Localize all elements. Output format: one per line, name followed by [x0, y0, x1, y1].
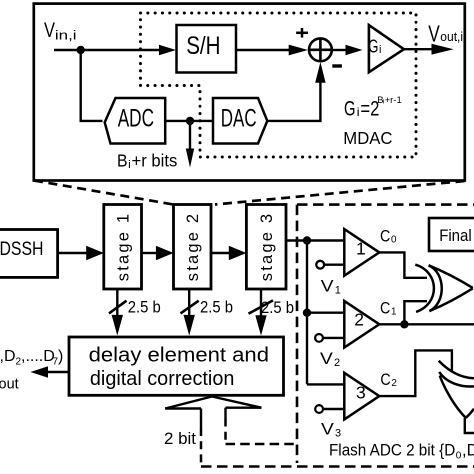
stage 3 block [246, 205, 286, 290]
svg-text:digital correction: digital correction [90, 368, 235, 390]
comparator 2 [344, 301, 379, 348]
wire stage 2 digital output down [188, 289, 190, 317]
ADC block [105, 98, 166, 144]
delay element and digital correction block [69, 337, 284, 395]
wire V1 to comparator 1 [324, 264, 344, 266]
svg-text:in,i: in,i [55, 29, 77, 43]
node junction dot on Vin wire [77, 46, 85, 54]
svg-text:Final: Final [439, 227, 472, 245]
wire amplifier output to Vout [404, 48, 433, 50]
wire V2 to comparator 2 [323, 337, 344, 339]
op-amp Gi amplifier triangle [369, 25, 404, 72]
wire stage 1 to stage 2 [142, 252, 158, 254]
svg-text:1: 1 [356, 239, 366, 259]
label C2 [380, 371, 396, 389]
svg-text:V: V [321, 277, 334, 295]
wire DSSH to stage 1 [58, 252, 88, 254]
svg-text:2.5 b: 2.5 b [128, 298, 161, 316]
label 2.5 b stage 3 [261, 299, 294, 317]
svg-text:V: V [320, 350, 333, 368]
svg-text:stage 2: stage 2 [184, 214, 202, 281]
svg-text:G: G [344, 97, 356, 120]
svg-text:DAC: DAC [221, 105, 257, 133]
label minus sign [332, 64, 342, 67]
svg-text:+r bits: +r bits [132, 151, 178, 171]
wire V3 to comparator 3 [323, 408, 344, 410]
node junction dot on C1 [400, 320, 408, 328]
dashed wire 2bit left down [200, 428, 203, 464]
svg-text:+r-1: +r-1 [385, 95, 402, 106]
svg-text:out,i: out,i [440, 30, 463, 44]
svg-text:delay element and: delay element and [89, 345, 269, 367]
label 2.5 b stage 1 [128, 298, 161, 316]
outer box of MDAC stage detail [34, 4, 465, 181]
svg-text:DSSH: DSSH [0, 239, 44, 260]
terminal V2 input circle [315, 334, 323, 342]
svg-text:V: V [321, 421, 334, 439]
wire digital output arrow left [48, 371, 70, 373]
dashed wire 2bit right down [224, 419, 227, 445]
label V2 [320, 350, 340, 369]
svg-text:V: V [428, 21, 440, 47]
svg-text:C: C [380, 228, 391, 246]
dashed expansion line right [215, 181, 465, 205]
svg-text:C: C [380, 371, 391, 389]
block arrow 2 bit into delay element [165, 397, 261, 429]
stage 2 block [174, 205, 212, 290]
terminal V1 input circle [316, 261, 324, 269]
wire junction down to ADC [81, 50, 103, 121]
node Vout,i label [428, 21, 463, 47]
node junction dot on comparator bus top [303, 236, 311, 244]
svg-text:0: 0 [391, 234, 397, 245]
svg-text:2: 2 [354, 309, 364, 329]
label V3 [321, 421, 341, 440]
svg-text:V: V [44, 19, 55, 42]
DAC block [213, 98, 267, 144]
node junction dot comparator 2 tap [303, 309, 311, 317]
svg-text:1: 1 [391, 306, 396, 317]
wire stage 2 to stage 3 [211, 252, 230, 254]
wire S/H to summing junction [236, 49, 290, 51]
svg-text:ADC: ADC [118, 105, 154, 133]
svg-text:,D: ,D [462, 442, 474, 460]
Final block [429, 218, 474, 251]
svg-text:Flash ADC 2 bit {D: Flash ADC 2 bit {D [329, 442, 455, 460]
comparator 3 [344, 373, 379, 420]
wire comparator input bus vertical [306, 241, 308, 385]
svg-text:): ) [58, 348, 63, 365]
wire C1 long horizontal [379, 323, 474, 325]
node junction dot between ADC and DAC [186, 117, 194, 125]
bus slash stage 3 [249, 300, 274, 313]
XOR gate U2 rotated [439, 361, 474, 418]
svg-text:i: i [128, 159, 131, 171]
comparator 1 [344, 229, 379, 276]
svg-text:S/H: S/H [186, 32, 220, 60]
dashed expansion line left [34, 181, 174, 205]
wire Vin to S/H with arrowhead [54, 49, 160, 51]
dashed flash ADC box left edge [296, 205, 299, 463]
label V1 [321, 277, 341, 296]
svg-text:2.5 b: 2.5 b [200, 298, 233, 316]
svg-text:G: G [368, 36, 378, 56]
label Flash ADC 2 bit [329, 442, 474, 462]
stage 1 block [104, 205, 142, 290]
svg-text:,....D: ,....D [21, 348, 55, 365]
XOR gate U1 [415, 265, 473, 312]
wire C2 to XOR gate 2 [379, 350, 452, 396]
svg-text:stage 1: stage 1 [115, 214, 133, 281]
label Gi=2^Bi+r-1 [344, 95, 402, 120]
wire XOR gate 2 output [465, 418, 474, 433]
svg-text:2.5 b: 2.5 b [261, 299, 294, 317]
svg-text:MDAC: MDAC [343, 128, 392, 148]
label Dout [0, 370, 19, 393]
svg-text:1: 1 [335, 284, 341, 296]
wire stage 3 digital output down [260, 290, 262, 317]
DSSH block [0, 230, 58, 278]
label MDAC [343, 128, 392, 148]
dashed wire bottom horizontal [201, 465, 474, 468]
svg-text:C: C [380, 300, 391, 318]
bus slash stage 1 [109, 301, 127, 314]
svg-text:2 bit: 2 bit [164, 430, 196, 448]
svg-text:i: i [357, 105, 360, 119]
wire ADC to DAC [165, 120, 213, 122]
bus slash stage 2 [181, 301, 199, 314]
svg-text:0: 0 [456, 450, 462, 461]
summing junction [309, 38, 332, 61]
wire DAC to summing junction [267, 82, 320, 121]
label C0 [380, 228, 397, 246]
wire stage 1 digital output down [116, 289, 118, 317]
wire C1 up to XOR gate [404, 301, 427, 324]
svg-text:stage 3: stage 3 [258, 214, 276, 281]
MDAC dotted boundary [141, 13, 417, 157]
node Vin,i label [44, 19, 77, 43]
terminal V3 input circle [315, 405, 323, 413]
wire C0 to XOR gate [379, 252, 427, 277]
svg-text:3: 3 [356, 382, 366, 402]
label plus sign [296, 28, 308, 38]
label 2 bit [164, 430, 196, 448]
wire stage 3 output to comparators [286, 239, 344, 241]
wire digital bits arrow down from junction [189, 121, 191, 150]
svg-text:out: out [0, 377, 19, 393]
dashed wire right horizontal to flash box [226, 443, 298, 446]
wire tap to comparator 2 [307, 312, 344, 314]
svg-text:2: 2 [334, 357, 340, 369]
wire summing junction to amplifier [332, 49, 347, 51]
dashed flash ADC box top edge [297, 203, 474, 206]
label 2.5 b stage 2 [200, 298, 233, 316]
svg-text:2: 2 [391, 378, 396, 389]
label (D1,D2,....D7) [0, 348, 63, 368]
label Bi+r bits [117, 151, 178, 172]
svg-text:B: B [117, 151, 128, 171]
wire tap to comparator 3 [307, 383, 344, 385]
svg-text:,D: ,D [0, 348, 16, 365]
label C1 [380, 300, 396, 318]
S/H block [177, 25, 237, 73]
svg-text:3: 3 [335, 428, 341, 440]
svg-text:i: i [379, 44, 381, 56]
